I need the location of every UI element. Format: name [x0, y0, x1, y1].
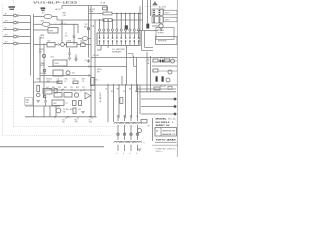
wire right vertical 2	[150, 0, 152, 16]
wire row y20 center	[57, 19, 89, 21]
IC1 inner pin tick bottom 6	[120, 42, 122, 45]
bus wire vertical D	[43, 44, 45, 99]
nested corner line 3	[145, 47, 154, 49]
connector CN1 label box	[164, 10, 178, 15]
sub vertical 1	[43, 106, 45, 117]
IC1 body	[97, 33, 140, 46]
fuse F2 body	[146, 24, 149, 29]
svg-text:VU1-8LP-1E33: VU1-8LP-1E33	[33, 0, 78, 4]
IC1 inner pin tick bottom 5	[116, 42, 118, 45]
svg-text:SP OUT: SP OUT	[160, 86, 166, 88]
osc coil box	[52, 100, 64, 106]
IC1 pin stub 3	[107, 20, 109, 29]
coil column 3 upper winding	[127, 122, 135, 123]
chassis dashed boundary inner vertical	[13, 0, 15, 127]
fuse F1 body	[103, 7, 108, 10]
svg-text:R48: R48	[52, 87, 55, 89]
rec eq box	[43, 89, 52, 95]
stub B	[77, 117, 79, 119]
svg-text:TOKYO JAPAN: TOKYO JAPAN	[156, 139, 177, 142]
svg-text:AC 117V: AC 117V	[159, 5, 167, 8]
harness wire 5	[131, 85, 133, 118]
bus bottom center	[25, 116, 97, 118]
stub ticks on main line	[49, 89, 51, 90]
svg-text:R62: R62	[75, 119, 78, 121]
cap C44	[79, 101, 82, 106]
coil column 3 lower winding	[127, 141, 135, 142]
harness wire 3	[118, 85, 120, 118]
wire jack to bus row 1	[20, 15, 31, 17]
IC1 pin stub 7	[125, 14, 127, 29]
wire row1 b	[52, 16, 57, 18]
IC1 inner pin tick bottom 3	[107, 42, 109, 45]
dashed bias box	[25, 98, 33, 106]
small comp row b	[73, 81, 78, 84]
svg-text:R49: R49	[64, 87, 67, 89]
main signal line y90	[44, 89, 95, 91]
junction dot 2	[89, 116, 91, 118]
label SW block	[41, 7, 46, 9]
coil column 4 upper winding	[134, 122, 142, 123]
coil column 3 bottom lead	[130, 145, 132, 151]
IC1 inner pin tick bottom 4	[112, 42, 114, 45]
legend box divider	[160, 128, 162, 137]
nested corner line 2	[144, 31, 146, 48]
coil column 2 bottom lead	[124, 145, 126, 151]
svg-text:R50: R50	[76, 87, 79, 89]
right column bus y71	[152, 70, 177, 72]
cap on x74	[73, 35, 76, 37]
rail vertical x88.5	[88, 6, 90, 58]
IC1 bottom stub 1	[100, 46, 102, 51]
out cluster resistor Ra	[153, 59, 158, 62]
wire jack to bus row 4	[20, 36, 31, 38]
harness wire 1	[107, 85, 109, 122]
coil column 2 terminal	[123, 133, 125, 135]
svg-text:YE: YE	[123, 91, 125, 93]
svg-text:IN L: IN L	[5, 14, 8, 16]
svg-text:T3: T3	[66, 103, 68, 105]
rail B+ horizontal	[91, 57, 177, 59]
IC1 pin stub 2	[103, 20, 105, 29]
wire row1 a	[34, 16, 45, 18]
harness wire 6	[137, 85, 139, 118]
resistor R31 vertical	[37, 86, 40, 92]
right column bus y61	[152, 60, 177, 62]
coil column 4 lower winding	[134, 141, 142, 142]
ground C22	[68, 57, 72, 59]
rail vertical x91 main	[90, 6, 92, 118]
svg-text:473: 473	[65, 36, 68, 38]
arrow into preamp row 5	[17, 43, 19, 45]
wire Q10 leads	[152, 25, 159, 27]
scan edge right border	[176, 0, 178, 157]
IC1 inner pin tick top 10	[138, 34, 140, 37]
rail vertical x95	[94, 20, 96, 117]
arrow y66.5	[89, 66, 91, 68]
svg-text:WH: WH	[117, 88, 119, 90]
cap C32	[45, 98, 47, 101]
IC1 inner pin tick bottom 10	[138, 42, 140, 45]
svg-text:C41: C41	[57, 79, 60, 81]
svg-text:1K: 1K	[65, 81, 67, 83]
relay RL1 body	[91, 78, 95, 86]
svg-text:C9: C9	[84, 60, 86, 62]
wire vertical x140 low	[139, 85, 141, 114]
svg-text:SW: SW	[39, 52, 42, 54]
resistor R42	[64, 93, 72, 98]
wire right vertical x140	[139, 7, 141, 41]
input wire row 2	[3, 22, 13, 24]
resistor R12	[103, 19, 112, 22]
svg-text:C7: C7	[65, 33, 67, 35]
input wire row 3	[3, 29, 13, 31]
svg-text:SUPPLY: SUPPLY	[158, 33, 165, 35]
svg-text:RD: RD	[111, 91, 113, 93]
cap C5 plates	[61, 21, 63, 23]
out transistor A	[171, 59, 175, 63]
svg-text:MUTE: MUTE	[97, 69, 102, 71]
input wire row 1	[3, 15, 13, 17]
svg-text:C5: C5	[64, 24, 66, 26]
svg-text:B+ ADJUST: B+ ADJUST	[99, 91, 102, 102]
svg-text:8: 8	[144, 143, 145, 145]
IC1 inner pin tick bottom 1	[99, 42, 101, 45]
svg-text:LOUD: LOUD	[54, 63, 59, 65]
connector CN2	[152, 17, 163, 24]
svg-text:CN2 P: CN2 P	[165, 20, 171, 22]
IC1 pin stub 5	[116, 14, 118, 29]
wire x62 down	[61, 24, 63, 42]
svg-text:VOL: VOL	[51, 57, 55, 59]
out rail 2	[137, 91, 176, 93]
svg-text:7.2: 7.2	[91, 24, 95, 28]
dotted separator top right	[140, 6, 158, 8]
cap C31	[54, 89, 57, 93]
svg-text:R55: R55	[70, 109, 73, 111]
jack circle mute	[42, 54, 45, 57]
legend thin rule	[155, 141, 177, 143]
wire jack to bus row 3	[20, 29, 31, 31]
svg-text:B+ 24V: B+ 24V	[94, 55, 100, 57]
svg-text:C48: C48	[58, 87, 61, 89]
out comp extra	[168, 86, 172, 89]
out dark pads	[160, 60, 162, 63]
cap C21	[81, 43, 86, 46]
label PHONO block	[9, 6, 16, 8]
input jack J4	[14, 35, 17, 38]
svg-text:2K: 2K	[82, 81, 84, 83]
coil column 3 top lead	[130, 115, 132, 121]
input jack J2	[14, 21, 17, 24]
transistor Q6	[36, 93, 40, 97]
sub vertical 2	[49, 106, 51, 117]
svg-text:CN1 P: CN1 P	[165, 13, 171, 15]
IC1 pin stub 8	[129, 14, 131, 29]
svg-text:Q7 2SC: Q7 2SC	[63, 109, 70, 111]
coil column 1 terminal	[117, 133, 119, 135]
arrow into preamp row 4	[17, 36, 19, 38]
svg-text:BL: BL	[106, 88, 108, 90]
coil column 3 terminal	[130, 133, 132, 135]
junction dot y90 b	[71, 89, 72, 90]
speaker line 3	[141, 113, 174, 115]
cap on rail x88-91	[88, 59, 90, 63]
vertical branch x74	[73, 24, 75, 44]
junction dot y90 c	[83, 89, 84, 90]
amp triangle	[85, 93, 91, 100]
coil column 4 top lead	[137, 115, 139, 121]
stub C	[91, 117, 93, 119]
coil column 2 top lead	[124, 115, 126, 121]
speaker line 2	[141, 106, 174, 108]
transistor Q8	[66, 71, 70, 75]
svg-text:Q8: Q8	[72, 72, 74, 74]
svg-text:10u: 10u	[62, 122, 65, 124]
svg-text:R47: R47	[82, 79, 85, 81]
coil column 2 upper winding	[121, 122, 129, 123]
svg-text:C61: C61	[62, 119, 65, 121]
svg-text:PRINTED 1982.10: PRINTED 1982.10	[156, 148, 176, 150]
right hline y66	[152, 65, 177, 67]
nested corner line 1	[141, 31, 143, 51]
transistor Q10	[159, 24, 163, 28]
cap C5 stem	[61, 20, 63, 22]
IC1 pin stub 4	[112, 20, 114, 29]
speaker dot 1	[174, 98, 177, 101]
IC1 pin stub 9	[133, 14, 135, 29]
wire to mixer	[34, 29, 49, 31]
IC1 bottom lead long	[126, 46, 128, 86]
arrow y75.5	[89, 75, 91, 77]
IC1 inner pin tick top 7	[125, 34, 127, 37]
IC1 inner pin tick bottom 8	[129, 42, 131, 45]
svg-text:SERVICE: SERVICE	[162, 130, 176, 132]
warning triangle	[152, 1, 158, 5]
coil column 1 top lead	[117, 115, 119, 121]
IC1 pin stub 10	[138, 14, 140, 29]
svg-text:GN: GN	[129, 88, 131, 90]
mixer box	[48, 28, 58, 34]
out transistor B	[168, 70, 172, 74]
wire mid row y66.5	[48, 66, 127, 68]
speaker dot 3	[174, 113, 177, 116]
svg-text:MODEL: MODEL	[156, 119, 168, 121]
svg-text:C21: C21	[80, 41, 83, 43]
transistor Q7	[56, 108, 61, 113]
out resistor Rd	[154, 87, 160, 90]
right block upper rect	[156, 37, 178, 45]
bottom border rule	[0, 146, 104, 148]
loudness box	[53, 60, 67, 66]
pot VR1 oval	[44, 14, 52, 18]
rail vertical right x147	[146, 52, 148, 92]
svg-text:RL1: RL1	[96, 80, 99, 82]
wire varistor	[78, 38, 82, 40]
long rail y85	[90, 84, 177, 86]
coil column 4 terminal	[136, 133, 138, 135]
wire top feed	[62, 5, 107, 7]
wire jack to bus row 2	[20, 22, 31, 24]
input wire row 5	[3, 43, 13, 45]
out transistor C	[166, 78, 170, 82]
resistor R41	[54, 93, 62, 98]
phones jack 3	[43, 69, 46, 72]
wire row2 a	[34, 23, 43, 25]
IC1 inner pin tick top 2	[103, 34, 105, 37]
junction dot y90 a	[61, 89, 62, 90]
wire right vertical 1	[147, 0, 149, 23]
wire sub top	[34, 81, 61, 83]
wire jack to bus row 5	[20, 43, 31, 45]
IC1 bracket corner	[128, 53, 134, 55]
IC1 inner pin tick bottom 7	[125, 42, 127, 45]
arrow into preamp row 1	[17, 15, 19, 17]
junction dot 1b	[67, 116, 69, 118]
varistor oval	[82, 37, 88, 41]
rail wire upper	[89, 13, 143, 15]
wire top feed drop right	[106, 6, 108, 14]
wire row y44.5	[34, 44, 48, 46]
jack on rail	[87, 28, 89, 30]
svg-text:EQ/PB AMP: EQ/PB AMP	[112, 50, 122, 53]
electrolytic C22	[69, 48, 71, 53]
IC1 inner pin tick top 1	[99, 34, 101, 37]
coil column 1 upper winding	[114, 122, 122, 123]
bus wire vertical C	[39, 37, 41, 83]
resistor R21	[47, 43, 55, 47]
resistor R43 vertical	[73, 101, 77, 106]
wire right area horizontal	[137, 30, 158, 32]
svg-text:SHEET 1/2: SHEET 1/2	[156, 125, 170, 127]
out rail 1	[137, 88, 176, 90]
IC1 pin stub 6	[120, 14, 122, 29]
IC1 pin stub 1	[99, 20, 101, 29]
wire top feed corner left	[61, 6, 63, 10]
wire x122 short	[121, 76, 123, 85]
input jack J3	[14, 28, 17, 31]
coil column 4 bottom lead	[137, 145, 139, 151]
jack circle left band	[43, 95, 46, 98]
ground bottom right	[138, 148, 142, 150]
svg-text:A1: A1	[156, 129, 158, 132]
svg-text:C47: C47	[46, 87, 49, 89]
transistor Q5	[61, 43, 65, 47]
big box corner right	[133, 56, 135, 66]
rail vertical x136.5	[136, 58, 138, 93]
arrow into preamp row 3	[17, 29, 19, 31]
svg-text:SC-5L: SC-5L	[168, 119, 176, 121]
resistor R44	[73, 108, 76, 114]
IC1 inner pin tick bottom 2	[103, 42, 105, 45]
coil column 1 mid lead	[117, 125, 119, 140]
cap C23 vertical	[75, 54, 77, 57]
bus wire vertical A	[30, 16, 32, 76]
svg-text:BK: BK	[135, 91, 137, 93]
svg-text:PHONE: PHONE	[41, 73, 47, 75]
headphone amp box	[53, 70, 63, 76]
input jack J5	[14, 42, 17, 45]
pot VR2 oval	[42, 22, 50, 26]
input wire row 4	[3, 36, 13, 38]
coil column 2 mid lead	[124, 125, 126, 140]
IC1 inner pin tick bottom 9	[133, 42, 135, 45]
svg-text:B+ 28V: B+ 28V	[148, 57, 150, 64]
svg-text:R45: R45	[65, 79, 68, 81]
svg-text:C55: C55	[78, 109, 81, 111]
svg-text:MANUAL P3: MANUAL P3	[162, 133, 175, 136]
transistor Q9	[74, 93, 78, 97]
IC1 inner pin tick top 4	[112, 34, 114, 37]
wire row2 b	[50, 23, 78, 25]
bus wire vertical B	[33, 14, 35, 117]
bottom border rule right	[152, 144, 178, 146]
svg-text:C50: C50	[70, 87, 73, 89]
out cluster resistor Rb	[165, 59, 170, 62]
resistor R11	[103, 12, 112, 15]
small comp row a	[57, 81, 62, 84]
harness wire 2	[113, 85, 115, 122]
vertical branch x78	[77, 24, 79, 33]
svg-text:RIPPLE FIL: RIPPLE FIL	[158, 41, 167, 43]
sub vertical 3	[55, 106, 57, 117]
coil column 4 mid lead	[137, 125, 139, 140]
coil column 1 lower winding	[114, 141, 122, 142]
resistor bottom right small	[141, 120, 147, 123]
IC1 inner pin tick top 5	[116, 34, 118, 37]
wire y75.5	[40, 75, 91, 77]
svg-text:C46: C46	[73, 79, 76, 81]
ground C23	[74, 59, 78, 61]
out cluster resistor Rc	[153, 69, 158, 72]
IC1 inner pin tick top 6	[120, 34, 122, 37]
wire sub bottom	[25, 105, 60, 107]
connector CN2 label box	[164, 17, 178, 22]
svg-text:IN L: IN L	[5, 28, 8, 30]
speaker line 1	[141, 98, 174, 100]
cap on pin stub dark	[125, 25, 128, 29]
nested corner line 4	[142, 50, 154, 52]
chassis dashed boundary bottom-left	[3, 135, 113, 137]
svg-text:C51: C51	[82, 87, 85, 89]
power supply box	[156, 28, 174, 40]
coil column 1 bottom lead	[117, 145, 119, 151]
resistor R51 on harness	[120, 98, 123, 104]
junction dot 1	[54, 116, 56, 118]
tone box	[67, 43, 78, 47]
input jack J1	[14, 14, 17, 17]
transistor Q11 bottom	[138, 129, 142, 133]
wire row1 corner	[56, 17, 58, 21]
svg-text:NO.1833-2: NO.1833-2	[156, 122, 170, 124]
svg-text:AC IN: AC IN	[56, 8, 61, 11]
IC1 inner pin tick top 8	[129, 34, 131, 37]
svg-text:945: 945	[63, 112, 66, 114]
IC1 bottom stub 2	[107, 46, 109, 49]
arrow into preamp row 2	[17, 22, 19, 24]
wire bottom right vertical	[152, 118, 154, 141]
stub A	[65, 117, 67, 119]
svg-text:VR2: VR2	[41, 20, 44, 22]
IC1 inner pin tick top 9	[133, 34, 135, 37]
coil column 3 mid lead	[130, 125, 132, 140]
wire right vertical x142.5	[142, 0, 144, 31]
chassis dashed boundary inner horizontal	[14, 126, 147, 128]
svg-text:OUT: OUT	[89, 122, 93, 124]
harness wire 4	[125, 85, 127, 118]
arrow into Q5	[58, 44, 60, 46]
connector CN1	[152, 9, 163, 16]
